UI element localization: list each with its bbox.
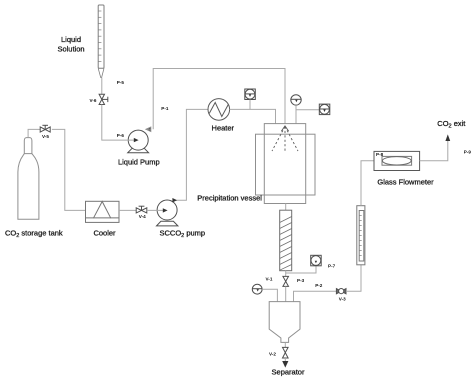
svg-text:CO2 exit: CO2 exit	[437, 119, 466, 130]
wire flowmeter to CO2 exit	[420, 141, 448, 161]
wire column to glass flowmeter	[361, 161, 374, 206]
svg-text:V-6: V-6	[90, 98, 97, 103]
instrument P-7	[311, 255, 322, 265]
valve V-4	[136, 206, 147, 213]
wire filter to valve V-1	[285, 271, 287, 277]
svg-text:Cooler: Cooler	[93, 229, 116, 238]
svg-text:Liquid Pump: Liquid Pump	[118, 157, 160, 166]
svg-text:V-2: V-2	[269, 352, 276, 357]
svg-text:V-1: V-1	[266, 277, 273, 282]
wire cooler to valve V-4	[119, 209, 136, 211]
arrow into liquid pump	[134, 138, 139, 142]
glass flowmeter	[374, 151, 420, 170]
spray nozzle	[281, 126, 288, 131]
wire vessel bottom to filter	[285, 204, 287, 211]
svg-text:P-9: P-9	[464, 150, 472, 155]
wire V-5 to cooler	[52, 129, 86, 210]
instrument I-1 (above heater line)	[245, 89, 256, 100]
valve V-5	[40, 125, 50, 132]
svg-text:P-2: P-2	[315, 283, 323, 288]
svg-text:SCCO2 pump: SCCO2 pump	[160, 229, 206, 240]
arrow at liquid pump outlet	[146, 127, 151, 131]
svg-text:Glass Flowmeter: Glass Flowmeter	[377, 177, 434, 186]
wire tank to valve V-5	[28, 129, 40, 137]
wire V-4 to SCCO2 pump inlet (P-4)	[147, 209, 163, 211]
valve V-3 (with circle)	[336, 289, 346, 294]
wire V-3 to measuring column	[346, 265, 361, 291]
arrow CO2 exit	[445, 134, 450, 141]
precipitation vessel (inner)	[264, 124, 305, 204]
svg-text:P-6: P-6	[117, 133, 125, 138]
liquid pump base	[128, 148, 149, 153]
valve V-6	[99, 94, 108, 104]
CO2 storage tank	[18, 138, 39, 220]
measuring column (graduated)	[357, 206, 365, 265]
separator vessel	[269, 302, 300, 343]
svg-text:V-3: V-3	[339, 296, 346, 301]
arrow at SCCO2 pump outlet	[172, 198, 177, 202]
wire heater to vessel top	[230, 109, 276, 123]
svg-text:P-1: P-1	[161, 106, 169, 111]
gauge PI-2 (separator inlet)	[252, 284, 262, 294]
wire gauge to vessel lid and to instrument I-2	[295, 105, 297, 124]
cooler E-1	[86, 201, 120, 222]
burette (liquid solution feed)	[98, 5, 104, 78]
svg-text:V-5: V-5	[42, 134, 49, 139]
svg-text:P-5: P-5	[117, 80, 125, 85]
svg-text:P-7: P-7	[328, 263, 336, 268]
wire gauge PI-2 to separator	[262, 289, 277, 301]
wire separator to valve V-3 (P-2)	[294, 291, 337, 301]
wire SCCO2 pump outlet up to heater	[177, 109, 209, 200]
arrow separator drain	[282, 361, 288, 368]
vessel jacket (outer)	[256, 134, 316, 195]
svg-text:Separator: Separator	[272, 367, 305, 376]
wire V-1 to separator	[285, 286, 287, 301]
valve V-1	[283, 276, 289, 286]
svg-text:Solution: Solution	[57, 45, 84, 54]
wire filter outlet branch to gauge P-7	[286, 266, 316, 273]
wire separator neck to valve V-2	[284, 342, 286, 347]
svg-text:P-8: P-8	[376, 152, 384, 157]
filter F-1 (hatched column)	[280, 210, 292, 271]
wire V-6 down to liquid pump inlet	[102, 105, 134, 141]
svg-text:CO2 storage tank: CO2 storage tank	[5, 229, 63, 240]
svg-text:Precipitation vessel: Precipitation vessel	[197, 193, 262, 202]
instrument I-2 (right of vessel)	[319, 104, 330, 115]
svg-text:V-4: V-4	[139, 214, 146, 219]
svg-text:Liquid: Liquid	[61, 35, 81, 44]
spray dashed jets	[272, 127, 298, 153]
arrow into SCCO2 pump	[163, 208, 168, 212]
SCCO2 pump base	[157, 221, 178, 226]
svg-text:P-3: P-3	[297, 278, 305, 283]
wire burette to valve V-6	[101, 78, 103, 95]
heater E-2	[208, 99, 230, 121]
wire liquid pump outlet to vessel (P-1)	[153, 69, 285, 130]
pump U (SCCO2 pump)	[157, 200, 177, 220]
wire instrument I-1 to pipe	[249, 100, 251, 110]
valve V-2	[283, 347, 289, 358]
pump U (Liquid Pump)	[128, 130, 148, 150]
svg-text:Heater: Heater	[212, 123, 235, 132]
gauge PI-1 (circle on vessel top)	[291, 95, 301, 105]
wire V-2 to drain arrow	[284, 358, 286, 361]
